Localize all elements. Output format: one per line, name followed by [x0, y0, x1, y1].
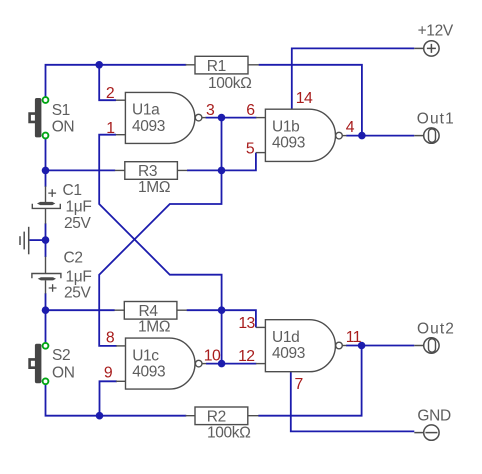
wire pin 7 down to GND — [291, 372, 415, 432]
capacitor C2 leads — [45, 257, 47, 294]
capacitor C1 bottom plate — [32, 204, 60, 209]
svg-text:6: 6 — [246, 102, 255, 119]
svg-text:U1d: U1d — [272, 329, 299, 346]
gate U1c bubble — [195, 360, 202, 367]
gate U1d body — [265, 320, 335, 372]
svg-text:4093: 4093 — [272, 135, 305, 152]
gate U1b bubble — [336, 132, 343, 139]
gate U1b pins — [256, 118, 347, 153]
svg-text:4: 4 — [346, 119, 355, 136]
junction Out2 node — [358, 342, 366, 350]
svg-text:R1: R1 — [207, 58, 226, 75]
wire R4 left — [46, 309, 115, 311]
switch S1 terminal bottom — [43, 133, 49, 139]
junction bottom rail node — [96, 412, 104, 420]
resistor R1 — [195, 56, 248, 74]
wire pin 9 down to bottom rail — [100, 381, 117, 415]
gate U1a bubble — [195, 114, 202, 121]
resistor R3 — [125, 162, 178, 180]
resistor R4 leads — [114, 309, 186, 311]
junction node A — [95, 61, 103, 69]
svg-text:U1b: U1b — [272, 118, 299, 135]
svg-text:8: 8 — [106, 329, 115, 346]
junction Out1 node — [358, 132, 366, 140]
junction R3 node — [218, 167, 226, 175]
svg-text:2: 2 — [106, 85, 114, 102]
switch S2 plunger — [30, 359, 35, 367]
switch S1 plunger — [30, 114, 35, 122]
svg-text:Out2: Out2 — [417, 321, 455, 338]
junction U1a output node — [218, 114, 226, 122]
wire ground branch — [30, 239, 46, 241]
svg-text:4093: 4093 — [132, 364, 165, 381]
svg-text:4093: 4093 — [132, 118, 165, 135]
svg-text:13: 13 — [238, 315, 255, 332]
gate U1a body — [125, 92, 194, 143]
resistor R1 leads — [186, 64, 259, 66]
resistor R3 leads — [115, 169, 187, 171]
capacitor C2 bottom plate — [38, 277, 56, 280]
svg-text:GND: GND — [417, 408, 451, 425]
gate U1c body — [126, 338, 196, 389]
wire +12V to pin 14 — [292, 48, 415, 109]
svg-text:14: 14 — [296, 90, 313, 107]
supply +12V symbol — [414, 41, 439, 56]
svg-text:R3: R3 — [138, 163, 157, 180]
svg-text:9: 9 — [104, 364, 113, 381]
wire U1c output to pin 12 — [206, 363, 256, 365]
wire U1b output to Out1 — [346, 135, 414, 137]
connector Out2 symbol — [414, 338, 439, 353]
svg-text:12: 12 — [238, 348, 254, 365]
svg-text:1μF: 1μF — [66, 268, 92, 285]
wire U1d output to Out2 — [346, 345, 414, 347]
gate U1d bubble — [336, 342, 343, 349]
svg-text:R2: R2 — [207, 408, 226, 425]
junction C2 bottom node — [42, 306, 50, 314]
svg-text:100kΩ: 100kΩ — [208, 75, 251, 92]
capacitor C1 plus sign — [48, 189, 56, 197]
svg-text:7: 7 — [295, 376, 303, 393]
wire R4 right to pin 13 jog — [187, 310, 256, 327]
svg-text:U1c: U1c — [132, 347, 159, 364]
wire pin 1 to X-cross to U1c output node — [99, 135, 221, 364]
svg-text:4093: 4093 — [272, 345, 305, 362]
svg-text:1MΩ: 1MΩ — [138, 319, 170, 336]
wire R2 right up to Out2 node — [258, 346, 361, 416]
svg-text:ON: ON — [52, 365, 75, 382]
resistor R2 — [195, 407, 248, 425]
wire C1 bottom to ground node to C2 top — [45, 223, 47, 257]
svg-text:25V: 25V — [64, 215, 92, 232]
capacitor C1 leads — [45, 186, 47, 224]
wire S1 bottom to C1 node — [45, 136, 47, 187]
capacitor C2 plus sign — [49, 284, 57, 292]
ground symbol — [20, 227, 29, 255]
switch S2 actuator — [35, 344, 42, 383]
capacitor C2 top plate — [32, 274, 61, 279]
junction C1 top node — [42, 167, 50, 175]
svg-text:25V: 25V — [64, 285, 92, 302]
switch S1 terminal top — [43, 97, 49, 103]
svg-text:C2: C2 — [64, 249, 83, 266]
svg-text:U1a: U1a — [132, 102, 160, 119]
wire node A down to pin 2 — [99, 65, 116, 100]
svg-text:3: 3 — [206, 102, 215, 119]
svg-text:S1: S1 — [52, 102, 70, 119]
capacitor C1 top plate — [37, 202, 55, 205]
wire U1a output to pin 6 — [206, 117, 257, 119]
resistor R2 leads — [186, 415, 259, 417]
junction R4 node — [218, 306, 226, 314]
wire R3 node to X-cross to pin 8 — [99, 170, 221, 346]
svg-text:R4: R4 — [139, 303, 159, 320]
gate U1d pins — [256, 327, 347, 363]
wire U1a output node down to R3 node — [221, 118, 223, 171]
wire S1 top to node A to R1 left — [46, 65, 187, 100]
svg-text:10: 10 — [204, 348, 221, 365]
gate U1a pins — [116, 100, 206, 135]
junction ground node — [42, 236, 50, 244]
switch S1 actuator — [35, 98, 42, 137]
svg-text:1MΩ: 1MΩ — [138, 179, 170, 196]
resistor R4 — [124, 302, 177, 320]
gate U1b body — [265, 109, 335, 161]
junction U1c output node — [218, 360, 226, 368]
switch S2 terminal bottom — [43, 378, 49, 384]
svg-text:5: 5 — [246, 140, 255, 157]
supply GND symbol — [414, 425, 439, 440]
svg-text:S2: S2 — [52, 347, 70, 364]
svg-text:100kΩ: 100kΩ — [207, 425, 250, 442]
connector Out1 symbol — [414, 128, 439, 143]
wire S2 bottom to bottom rail to R2 left — [46, 381, 187, 415]
wire C2 bottom to R4 node to S2 top — [45, 293, 47, 346]
svg-text:11: 11 — [346, 329, 362, 346]
svg-text:+12V: +12V — [418, 23, 454, 40]
svg-text:1μF: 1μF — [66, 199, 92, 216]
wire R3 left to C1 node — [46, 169, 116, 171]
wire R1 right to Out1 node — [259, 65, 362, 136]
gate U1c pins — [116, 346, 206, 381]
svg-text:Out1: Out1 — [417, 111, 455, 128]
svg-text:C1: C1 — [63, 182, 82, 199]
switch S2 terminal top — [43, 343, 49, 349]
svg-text:ON: ON — [52, 119, 75, 136]
svg-text:1: 1 — [106, 120, 115, 137]
wire R3 right to pin 5 jog — [187, 153, 256, 171]
